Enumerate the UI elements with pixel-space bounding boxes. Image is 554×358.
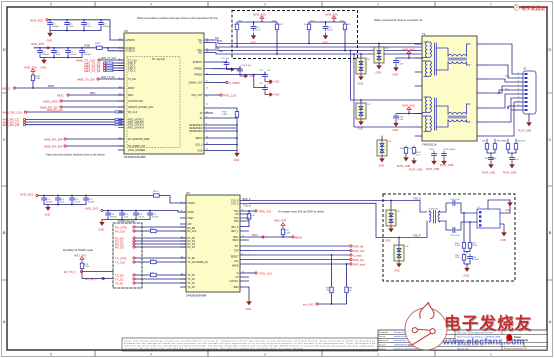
svg-text:AVD_2V5: AVD_2V5 bbox=[24, 65, 37, 69]
ground (D1) bbox=[358, 74, 364, 86]
wire TX_D1 bbox=[135, 278, 186, 280]
svg-text:RESET: RESET bbox=[231, 257, 239, 259]
wire C29 to osc bbox=[457, 222, 477, 230]
svg-text:C105: C105 bbox=[514, 159, 520, 161]
ground (lower bank 1) bbox=[45, 205, 51, 217]
capacitor C104 1000pF bbox=[484, 155, 497, 162]
svg-text:1000pF: 1000pF bbox=[110, 216, 118, 218]
svg-text:0.1uF: 0.1uF bbox=[328, 29, 334, 31]
svg-text:TX_D1: TX_D1 bbox=[188, 279, 196, 281]
svg-text:GND: GND bbox=[393, 73, 399, 77]
svg-text:RXD_3/GPIO4: RXD_3/GPIO4 bbox=[128, 126, 144, 129]
TI logo in title block bbox=[506, 334, 529, 342]
svg-text:PLNT_GND: PLNT_GND bbox=[503, 172, 517, 175]
svg-text:VDDA: VDDA bbox=[188, 211, 195, 214]
watermark plug circles bbox=[412, 328, 417, 333]
net label AMS_RX_CLK bbox=[3, 110, 27, 114]
svg-text:LPF: LPF bbox=[188, 224, 193, 226]
svg-text:0.01uF: 0.01uF bbox=[138, 216, 145, 218]
svg-text:C: C bbox=[549, 137, 552, 142]
U6 right pin stubs bbox=[240, 201, 249, 288]
wire J2 shield to PLNT_GND bbox=[528, 114, 530, 120]
wire AMS_CRS bbox=[62, 100, 124, 102]
svg-text:3: 3 bbox=[518, 80, 519, 82]
wire RX_D1 bbox=[135, 240, 186, 242]
net label DAP_clk bbox=[350, 244, 364, 248]
capacitor C25 bbox=[259, 83, 273, 92]
svg-text:DAP_strb: DAP_strb bbox=[353, 249, 365, 253]
net label AMS_TX_D3 bbox=[84, 69, 106, 73]
power flag AVD_3V3 (magnetics bottom) bbox=[402, 103, 415, 111]
svg-text:TDA: TDA bbox=[234, 210, 239, 213]
svg-text:RGMII Signals: RGMII Signals bbox=[118, 219, 135, 223]
net label RX_D2 bbox=[115, 242, 135, 246]
coupling transformer L1 bbox=[430, 211, 440, 224]
TVS diode D2 bbox=[374, 47, 389, 63]
labels TXD_P TXD_N bbox=[243, 199, 251, 208]
net label DAP_mosi bbox=[350, 253, 362, 257]
svg-text:GND: GND bbox=[234, 158, 240, 162]
watermark big (bottom right) bbox=[405, 303, 534, 351]
svg-text:Sheet 2 of 4: Sheet 2 of 4 bbox=[457, 347, 469, 350]
svg-text:25MHz_OUT: 25MHz_OUT bbox=[189, 82, 203, 85]
svg-text:GND: GND bbox=[385, 240, 391, 243]
net label X_PWR bbox=[213, 81, 241, 85]
wire RX_CTRL bbox=[135, 226, 186, 228]
wire group A drops to bus bbox=[237, 31, 277, 54]
resistor R11 49.9 bbox=[232, 20, 243, 31]
ground sideways (C22) bbox=[227, 67, 242, 72]
net label AMS_RX_EN bbox=[44, 144, 66, 148]
svg-text:RX_ER/RXD4_ERR: RX_ER/RXD4_ERR bbox=[128, 138, 150, 141]
svg-text:MDC: MDC bbox=[128, 94, 134, 97]
net label MDIO bbox=[3, 86, 16, 90]
wire AMS_RX_ER bbox=[66, 138, 124, 140]
wire 75ohm join right bbox=[508, 151, 516, 155]
wires TXD to pins bbox=[113, 63, 124, 71]
ground (C104) + PLNT_GND bbox=[482, 162, 496, 175]
net label AVD_3V3 (lower rail 1) bbox=[20, 192, 38, 196]
svg-text:DVDD33: DVDD33 bbox=[126, 50, 136, 53]
svg-text:RX_TX_1: RX_TX_1 bbox=[64, 270, 76, 274]
net label AVD_2V5 (lower rail 2) bbox=[85, 206, 103, 211]
svg-text:J2: J2 bbox=[523, 67, 527, 71]
wires 75ohm tops bbox=[487, 139, 516, 142]
svg-text:GND: GND bbox=[501, 239, 507, 242]
capacitor C29 bbox=[450, 228, 457, 233]
capacitor C14 bbox=[38, 48, 50, 56]
svg-text:GND: GND bbox=[394, 270, 400, 273]
net label PRG_3V3 pull-up note bbox=[255, 209, 324, 213]
wire D7 to TXD_N bbox=[390, 201, 392, 211]
power flag AVD_2V5 (MDIO pullup) bbox=[24, 65, 37, 73]
power flag AVD_2V5 (group A) bbox=[253, 12, 266, 20]
wire AMS_RX_CLK bbox=[27, 111, 116, 113]
capacitor C6 bbox=[394, 58, 404, 65]
svg-text:TX_EN: TX_EN bbox=[188, 258, 196, 260]
transformer T1 body bbox=[415, 32, 484, 147]
svg-text:PFBOUT: PFBOUT bbox=[193, 61, 203, 64]
resistor R23 pullup bbox=[80, 262, 90, 271]
svg-text:Flexibility for RGMII mode: Flexibility for RGMII mode bbox=[63, 248, 93, 252]
svg-text:A: A bbox=[549, 319, 552, 324]
ground sideways (C24) bbox=[265, 79, 280, 84]
svg-text:TX_CTRL: TX_CTRL bbox=[115, 256, 127, 260]
svg-text:RX_EN: RX_EN bbox=[188, 228, 196, 230]
svg-text:5: 5 bbox=[50, 352, 52, 356]
svg-text:Project:: Project: bbox=[379, 343, 386, 346]
svg-text:TX_D2: TX_D2 bbox=[188, 283, 196, 285]
svg-text:1: 1 bbox=[490, 3, 492, 7]
capacitor C103 bbox=[442, 149, 457, 158]
net label RX_D0_1 bbox=[85, 277, 104, 281]
svg-text:L2 680uH: L2 680uH bbox=[428, 208, 438, 210]
net label DAP_strb bbox=[350, 249, 365, 253]
svg-text:AVD_3V3: AVD_3V3 bbox=[402, 47, 415, 51]
svg-text:AMS_RX_EN: AMS_RX_EN bbox=[44, 144, 62, 148]
svg-text:TXD_3: TXD_3 bbox=[128, 70, 136, 73]
svg-text:RX_D3: RX_D3 bbox=[188, 247, 196, 249]
svg-text:C23 0.1uF: C23 0.1uF bbox=[242, 65, 252, 67]
svg-text:GND: GND bbox=[197, 150, 203, 153]
resistor pack TX termination bbox=[106, 62, 113, 72]
svg-text:GND: GND bbox=[505, 209, 511, 212]
wire PFBOUT bbox=[213, 61, 227, 63]
TVS diode D4 bbox=[377, 140, 392, 156]
svg-text:0.1uF: 0.1uF bbox=[398, 119, 404, 121]
wire divider bottom rail bbox=[464, 261, 470, 266]
svg-text:C28 0.1uF: C28 0.1uF bbox=[450, 199, 460, 201]
net label PFD_CLK bbox=[213, 93, 237, 97]
capacitor C10 bbox=[48, 20, 60, 28]
U6 left pin stubs bbox=[180, 203, 186, 287]
svg-text:AVD_2V5: AVD_2V5 bbox=[31, 42, 44, 46]
net label AVD_3V3 (top left) bbox=[30, 18, 48, 22]
wire AMS_RX_D2 bbox=[26, 121, 116, 123]
svg-text:M1 Signals: M1 Signals bbox=[152, 57, 166, 61]
wire PFBIN1 bbox=[213, 67, 240, 69]
wire AMS_TX_EN bbox=[99, 78, 124, 80]
capacitor C15 bbox=[52, 48, 62, 56]
wire coil right bottom bbox=[440, 221, 451, 230]
svg-text:DP83822HRHBR: DP83822HRHBR bbox=[124, 155, 146, 159]
ground (C100) bbox=[393, 121, 399, 133]
svg-text:RX_D0_1: RX_D0_1 bbox=[85, 277, 97, 281]
svg-text:RX_D0: RX_D0 bbox=[188, 238, 196, 240]
svg-text:AVD_2V5: AVD_2V5 bbox=[85, 206, 98, 210]
svg-text:MDC: MDC bbox=[90, 92, 96, 95]
capacitor C12 bbox=[82, 20, 92, 28]
wire AVD_3V3 rail bbox=[48, 20, 124, 40]
svg-text:TDO: TDO bbox=[234, 218, 239, 220]
wire lower rail 1 bbox=[38, 195, 152, 197]
power flag AVD_3V3 (MDIO pullup lower) bbox=[274, 218, 287, 227]
svg-text:GND: GND bbox=[322, 41, 328, 45]
wire RD- to magnetics bbox=[213, 53, 421, 55]
svg-text:MDC: MDC bbox=[57, 93, 65, 97]
net label AMS_RX_D2 bbox=[3, 120, 26, 124]
net label AMS_RX_DV bbox=[40, 105, 62, 109]
net label RX_D3 bbox=[115, 245, 135, 249]
svg-text:MDIO: MDIO bbox=[233, 240, 239, 242]
svg-text:1: 1 bbox=[518, 72, 519, 74]
svg-text:0.1uF: 0.1uF bbox=[86, 26, 92, 28]
wire lower rail 2 cap bottoms bbox=[102, 218, 150, 220]
zone letters left bbox=[3, 47, 6, 324]
svg-text:1000pF: 1000pF bbox=[152, 216, 160, 218]
svg-text:LED_0: LED_0 bbox=[195, 144, 203, 147]
svg-text:For header mode Pull Up (DNP f: For header mode Pull Up (DNP for driver) bbox=[278, 210, 324, 213]
svg-text:0.01uF: 0.01uF bbox=[70, 54, 77, 56]
svg-text:4700pF: 4700pF bbox=[472, 259, 480, 261]
capacitor C19 0.1uF bbox=[323, 24, 333, 31]
svg-text:RX_CLK: RX_CLK bbox=[128, 111, 138, 114]
svg-text:TX_EN: TX_EN bbox=[128, 78, 136, 81]
svg-text:AVDD: AVDD bbox=[84, 45, 91, 48]
svg-text:MDIO: MDIO bbox=[128, 87, 134, 90]
svg-text:www.elecfans.com: www.elecfans.com bbox=[442, 337, 525, 347]
net label PLNT_GND (J2) bbox=[518, 120, 532, 133]
wire pullup to MDIO bbox=[32, 82, 34, 88]
wire RX_TX_1 bbox=[83, 271, 113, 273]
U5 internal dashed box M1 Signals bbox=[127, 57, 180, 148]
svg-text:1000pF: 1000pF bbox=[46, 201, 54, 203]
U6 right pin names bbox=[229, 201, 239, 290]
net label AMS_RX_D3 bbox=[3, 123, 26, 127]
power flag AVD_3V3 (magnetics top) bbox=[402, 47, 415, 55]
wire DVDD pins bbox=[104, 48, 124, 51]
svg-text:claimed that this design will: claimed that this design will meet the s… bbox=[124, 342, 376, 345]
svg-text:0.1uF: 0.1uF bbox=[267, 83, 273, 85]
net label AMS_RX_D1 bbox=[3, 118, 26, 122]
wire RX_CLK with R21 bbox=[135, 230, 149, 232]
svg-text:AVD_2V5: AVD_2V5 bbox=[253, 12, 266, 16]
svg-text:2: 2 bbox=[518, 76, 519, 78]
net label TX_CLK bbox=[115, 260, 135, 264]
svg-text:Layout:: Layout: bbox=[379, 347, 386, 350]
wire AMS_TX_CLK bbox=[100, 59, 124, 61]
svg-text:PLNT_GND: PLNT_GND bbox=[409, 169, 423, 172]
ground (divider) bbox=[464, 266, 470, 278]
net label XTAL_CLK bbox=[255, 271, 273, 275]
wire D4 stub bbox=[381, 136, 383, 140]
svg-text:A: A bbox=[3, 319, 6, 324]
svg-text:TX_D2: TX_D2 bbox=[115, 281, 124, 285]
svg-text:TX_D0: TX_D0 bbox=[188, 275, 196, 277]
net label MDC (lower) bbox=[252, 233, 264, 238]
resistor R70 bbox=[247, 212, 255, 221]
zone numbers bottom bbox=[50, 352, 492, 356]
wire to U6 VDDIO bbox=[161, 196, 186, 204]
net label TX_CTRL bbox=[115, 256, 135, 260]
svg-text:U5: U5 bbox=[124, 29, 128, 33]
svg-text:AVD_3V3: AVD_3V3 bbox=[30, 18, 43, 22]
svg-text:1000pF: 1000pF bbox=[52, 26, 60, 28]
svg-text:GND: GND bbox=[393, 128, 399, 132]
svg-text:RD-: RD- bbox=[198, 52, 202, 55]
svg-text:1000pF: 1000pF bbox=[84, 54, 92, 56]
svg-text:Approved:: Approved: bbox=[379, 339, 389, 342]
wire AMS_RX_DV bbox=[62, 106, 124, 108]
wire D1 to bus bbox=[360, 54, 362, 58]
wire AMS_RX_D1 bbox=[26, 119, 116, 121]
net label TX_D0 bbox=[115, 273, 135, 277]
title block table bbox=[378, 330, 547, 350]
svg-text:AVD_3V3: AVD_3V3 bbox=[20, 192, 33, 196]
svg-text:0.1uF: 0.1uF bbox=[398, 63, 404, 65]
net label DAP_aout bbox=[350, 262, 366, 266]
resistor R88 bbox=[326, 286, 333, 295]
wire TX_D2 bbox=[135, 282, 186, 284]
svg-text:PFBIN2: PFBIN2 bbox=[194, 74, 203, 77]
wire 75ohm join left bbox=[487, 151, 495, 155]
svg-text:MDIO: MDIO bbox=[3, 86, 11, 90]
svg-text:PLNT_GND: PLNT_GND bbox=[482, 172, 496, 175]
svg-text:RX_D1: RX_D1 bbox=[188, 241, 196, 243]
svg-text:TMS: TMS bbox=[234, 221, 239, 223]
zone tick marks bottom bbox=[95, 350, 435, 357]
wire TD+ to magnetics bbox=[213, 40, 421, 44]
svg-text:D: D bbox=[549, 47, 552, 52]
svg-text:XTAL_CLK: XTAL_CLK bbox=[259, 271, 272, 275]
resistor R47 75 bbox=[503, 141, 510, 151]
wire R88/R89 bottom rail bbox=[318, 294, 347, 304]
capacitor C22 (PFBOUT) bbox=[221, 58, 230, 67]
svg-text:AVDD33: AVDD33 bbox=[126, 39, 136, 42]
ground (osc lower) bbox=[501, 230, 507, 242]
net label DAP_dio bbox=[350, 258, 364, 262]
svg-text:AMS_RX_D3: AMS_RX_D3 bbox=[3, 123, 20, 127]
watermark small (top right) bbox=[514, 5, 546, 12]
svg-text:PLNT_GND: PLNT_GND bbox=[426, 168, 440, 171]
T1 pin stubs bbox=[415, 44, 422, 136]
ground (lower bank 2) bbox=[99, 220, 105, 232]
svg-text:TX_D1: TX_D1 bbox=[115, 277, 124, 281]
wire TD- to magnetics bbox=[213, 43, 421, 48]
svg-text:TXD_N: TXD_N bbox=[413, 198, 421, 201]
resistor R48 75 bbox=[514, 141, 526, 151]
ground (group B) bbox=[322, 33, 328, 45]
capacitor C115 bbox=[120, 211, 130, 219]
resistor R13 49.9 bbox=[304, 20, 315, 31]
net label RX_D0 bbox=[115, 236, 135, 240]
svg-text:AMS_RX_CLK: AMS_RX_CLK bbox=[47, 109, 63, 112]
svg-text:GND: GND bbox=[464, 273, 470, 277]
wire RX_D2 bbox=[135, 243, 186, 245]
capacitor C114 bbox=[106, 211, 118, 219]
wire group B top rail bbox=[309, 21, 345, 25]
svg-text:TXD_P: TXD_P bbox=[413, 235, 421, 238]
svg-text:4.87k: 4.87k bbox=[222, 114, 228, 116]
svg-text:TXD_N: TXD_N bbox=[243, 206, 251, 208]
svg-text:5: 5 bbox=[50, 3, 52, 7]
net label AMS_TX_EN bbox=[77, 77, 99, 81]
svg-text:GND: GND bbox=[246, 307, 252, 311]
U5 pin numbers bbox=[119, 38, 209, 151]
svg-text:GND: GND bbox=[250, 41, 256, 45]
svg-text:XI: XI bbox=[236, 273, 239, 275]
svg-text:D: D bbox=[3, 47, 6, 52]
svg-text:B: B bbox=[549, 230, 552, 235]
svg-text:PFBIN1: PFBIN1 bbox=[194, 68, 203, 71]
ground (D2) bbox=[376, 63, 382, 75]
resistor R107 RBIAS bbox=[222, 110, 239, 119]
capacitor C11 bbox=[65, 20, 75, 28]
wire osc lower pin bbox=[500, 224, 504, 230]
svg-text:RX_CLK: RX_CLK bbox=[188, 231, 197, 233]
ground (U6) bbox=[246, 299, 252, 311]
svg-text:U6: U6 bbox=[186, 191, 190, 195]
wire MDIO lower bbox=[249, 236, 292, 238]
zone tick marks right bbox=[547, 93, 553, 280]
wire center tap top bbox=[396, 56, 421, 58]
svg-text:DAP_clk: DAP_clk bbox=[353, 244, 364, 248]
wire drops to R88/R89 bbox=[332, 255, 347, 286]
U5 right pin stubs bbox=[204, 40, 213, 151]
ground (C105) + PLNT_GND bbox=[503, 162, 517, 175]
svg-text:VDDIO: VDDIO bbox=[188, 203, 195, 205]
power flag AVD_2V5 (group B) bbox=[325, 12, 338, 20]
wire AVD_2V5 rail bbox=[34, 47, 96, 49]
svg-text:X_PWR: X_PWR bbox=[229, 81, 241, 85]
svg-text:10uF: 10uF bbox=[124, 216, 129, 218]
svg-text:Designed:: Designed: bbox=[379, 332, 389, 334]
ground (cap bank 1) bbox=[47, 31, 53, 43]
wire pullup down bbox=[82, 270, 113, 278]
svg-text:Place termination resistors an: Place termination resistors and caps clo… bbox=[137, 16, 218, 20]
watermark flame logo bbox=[420, 303, 434, 319]
svg-text:MDIO: MDIO bbox=[48, 85, 54, 88]
op IC U5 DP83822 PHY bbox=[118, 29, 213, 159]
wire branch to C25 bbox=[254, 75, 265, 88]
svg-text:4: 4 bbox=[518, 84, 519, 86]
zone tick marks top bbox=[95, 2, 435, 8]
power flag AVD_3V3 (RGMII pullup) bbox=[74, 254, 87, 262]
ground (strap rail) bbox=[234, 151, 240, 163]
wire TX_CTRL bbox=[135, 257, 186, 259]
svg-text:URX_P: URX_P bbox=[231, 227, 239, 229]
svg-text:CLKOUT: CLKOUT bbox=[229, 281, 239, 283]
svg-text:TX_CLK: TX_CLK bbox=[115, 260, 125, 264]
capacitor C16 bbox=[66, 48, 77, 56]
net label RX_CLK bbox=[115, 229, 135, 233]
U5 right pin names bbox=[189, 39, 204, 153]
svg-text:DAP_aout: DAP_aout bbox=[353, 262, 366, 266]
svg-text:C102: C102 bbox=[429, 149, 435, 151]
svg-text:GND: GND bbox=[274, 94, 280, 97]
ground sideways (C23) bbox=[240, 74, 255, 79]
svg-text:2: 2 bbox=[377, 352, 379, 356]
net label RX_CTRL bbox=[115, 225, 135, 229]
svg-text:TX_CLK/MODE_SV: TX_CLK/MODE_SV bbox=[188, 262, 209, 264]
resistor R37 bbox=[468, 241, 478, 250]
svg-text:C: C bbox=[3, 137, 6, 142]
capacitor C113 bbox=[84, 196, 96, 204]
resistor R71 pullup bbox=[281, 228, 291, 237]
svg-text:TD-: TD- bbox=[199, 42, 203, 45]
dashed box (termination network) bbox=[232, 11, 358, 59]
ground (R106) + PLNT_GND bbox=[409, 158, 423, 172]
svg-text:0.01uF: 0.01uF bbox=[74, 201, 81, 203]
svg-text:2: 2 bbox=[377, 3, 379, 7]
wire group B drops to bus bbox=[309, 31, 345, 50]
wire T1 left pins to bus bbox=[415, 44, 421, 58]
ground (C6) bbox=[393, 65, 399, 77]
svg-text:AMS_RX_CLK: AMS_RX_CLK bbox=[3, 110, 23, 114]
TVS diode D1 bbox=[356, 58, 371, 74]
ground (D4) bbox=[379, 156, 385, 168]
svg-text:PFD_CLK: PFD_CLK bbox=[223, 93, 237, 97]
